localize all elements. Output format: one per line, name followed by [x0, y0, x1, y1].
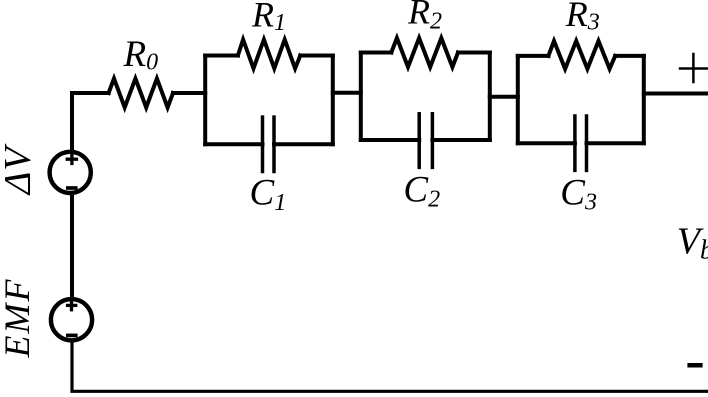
wire: block2 top rail left	[361, 51, 392, 55]
resistor R2	[391, 38, 458, 67]
wire: block3 bottom rail left	[518, 141, 575, 145]
wire: block2 right edge	[488, 53, 492, 141]
wire: between sources	[70, 194, 74, 298]
wire: block3 right edge	[642, 56, 646, 143]
resistor R1	[238, 40, 300, 69]
wire: block2 left edge	[359, 53, 363, 141]
wire: block1 to block2	[333, 91, 361, 95]
wire: block2 top rail right	[458, 51, 490, 55]
wire: block3 left edge	[516, 56, 520, 143]
wire: block1 left edge	[203, 56, 207, 145]
wire: block2 bottom rail right	[432, 138, 489, 142]
wire: R0 to RC block 1	[173, 91, 205, 95]
wire: block2 to block3	[490, 95, 518, 99]
wire: block1 bottom rail left	[205, 142, 262, 146]
wire: block1 bottom rail right	[274, 142, 333, 146]
capacitor C3	[575, 116, 587, 170]
wire: block3 top rail right	[615, 54, 644, 58]
wire: block1 top rail left	[205, 54, 238, 58]
negative terminal -	[687, 363, 702, 368]
capacitor C2	[419, 114, 432, 168]
wire: output to positive terminal	[644, 92, 708, 96]
wire: block1 right edge	[331, 56, 335, 145]
capacitor C1	[263, 117, 275, 171]
svg-text:ΔV: ΔV	[0, 143, 39, 196]
wire: block2 bottom rail left	[361, 138, 419, 142]
voltage source DeltaV	[50, 152, 91, 193]
wire: block3 bottom rail right	[587, 141, 644, 145]
resistor R3	[548, 41, 615, 69]
wire: block3 top rail left	[518, 54, 549, 58]
svg-text:EMF: EMF	[0, 278, 37, 359]
positive terminal +	[680, 54, 708, 82]
resistor R0	[109, 79, 173, 108]
wire: block1 top rail right	[300, 54, 333, 58]
wire: top-left from DeltaV source up and right to R0	[72, 93, 109, 151]
wire: EMF to bottom rail and bottom return rail	[72, 341, 708, 391]
voltage source EMF	[51, 299, 92, 340]
